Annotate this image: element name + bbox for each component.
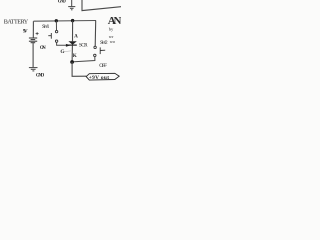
svg-text:GND: GND: [36, 73, 45, 78]
switch SW2 (pushbutton OFF): [94, 46, 106, 56]
node (rail junction to SCR): [71, 19, 74, 22]
battery B1 plus sign: [36, 32, 39, 35]
ground (top): [68, 0, 75, 10]
svg-text:SW1: SW1: [42, 24, 50, 30]
svg-text:SW2: SW2: [100, 40, 108, 46]
svg-text:9V: 9V: [23, 28, 28, 34]
svg-text:BATTERY: BATTERY: [4, 19, 29, 26]
wire (battery top lead): [32, 21, 34, 37]
wire (SW1 to gate): [57, 42, 67, 45]
wire (top rail): [34, 20, 97, 23]
battery B1: [29, 38, 37, 43]
node (rail junction to SW1): [55, 19, 58, 22]
ground (bottom): [29, 68, 38, 71]
svg-text:A: A: [74, 34, 78, 40]
gate arrow: [66, 44, 71, 47]
gate leader line: [64, 50, 71, 53]
svg-text:AN: AN: [108, 15, 121, 27]
svg-text:by: by: [109, 26, 114, 31]
SCR Q1 (thyristor symbol): [68, 41, 76, 45]
svg-text:K: K: [73, 53, 77, 59]
switch SW1 (pushbutton ON): [48, 30, 58, 42]
svg-text:ON: ON: [40, 46, 46, 51]
wire (SW1 top lead): [55, 21, 57, 31]
wire (SW2 bottom to cathode node): [72, 57, 95, 62]
wire (top right, partial circuit): [82, 0, 121, 11]
net flag +9V out: [86, 73, 119, 80]
wire (SCR cathode lead): [71, 46, 73, 63]
svg-text:+9V out: +9V out: [89, 75, 109, 81]
wire (SCR anode lead): [72, 21, 74, 42]
svg-text:SCR: SCR: [79, 42, 88, 48]
svg-text:wo: wo: [110, 39, 116, 44]
wire (cathode node to output): [72, 62, 86, 76]
svg-text:OFF: OFF: [99, 63, 107, 69]
svg-text:GND: GND: [58, 0, 67, 5]
node (cathode junction): [70, 60, 74, 64]
wire (battery bottom lead): [32, 43, 34, 67]
wire (right drop to SW2): [94, 21, 97, 47]
